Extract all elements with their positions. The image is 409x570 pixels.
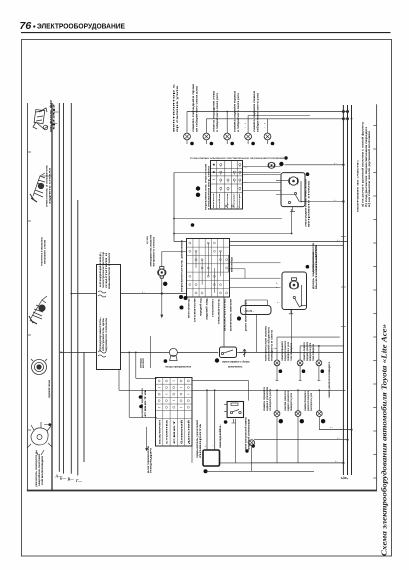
arrow wire (146, 427, 148, 448)
marker dot 3 (230, 142, 234, 146)
svg-text:тока поворота: тока поворота (290, 342, 293, 361)
svg-text:и омывателя ветр. стекла: и омывателя ветр. стекла (207, 165, 210, 210)
svg-text:стоянка: стоянка (167, 418, 169, 444)
svg-text:я габаритного света узла: я габаритного света узла (215, 92, 219, 132)
svg-text:аварийн.: аварийн. (219, 423, 222, 448)
svg-text:РУЧКА КЛАПАНУ АЛЬПИННУЮ ЧУВСТВ: РУЧКА КЛАПАНУ АЛЬПИННУЮ ЧУВСТВИТЕЛЬНУЮ О… (190, 157, 284, 160)
wire bus B (58, 103, 60, 472)
svg-text:фар: фар (52, 102, 56, 130)
light switch connector table (156, 378, 193, 447)
hazard warning relay K2 (227, 402, 243, 418)
wire table to mirror switch (223, 297, 225, 347)
svg-text:электродв.: электродв. (141, 358, 143, 368)
wire bus C (63, 103, 65, 474)
marker dot 4 (251, 142, 255, 146)
arrow symbol (243, 349, 246, 357)
svg-text:окончание на «части»: окончание на «части» (357, 159, 360, 212)
frame tick marks (28, 151, 32, 153)
wire from flasher (220, 462, 251, 464)
mirror heater switch box S2 (220, 347, 237, 358)
svg-text:звукового сигнала: звукового сигнала (105, 317, 108, 352)
svg-text:выкл: выкл (213, 192, 215, 208)
svg-text:Г—: Г— (75, 479, 82, 483)
bus branch ticks (52, 111, 59, 113)
right bus wire 1 (342, 105, 344, 475)
svg-text:лампа передняя лева: лампа передняя лева (213, 90, 216, 132)
fuse element bottom (98, 351, 106, 357)
svg-text:ближний: ближний (180, 419, 183, 444)
bus connector ticks (341, 236, 346, 238)
svg-text:вентилятор: вентилятор (188, 298, 191, 318)
schematic inner frame bottom edge (27, 490, 377, 492)
lamp L1 вентилятор салона (184, 133, 191, 140)
wire M1 to right bus (285, 164, 344, 166)
lamp T1 (274, 360, 280, 366)
box exit wires (290, 207, 295, 212)
relay exit wire right to bus (305, 201, 343, 203)
svg-text:лампа передняя прав: лампа передняя прав (192, 83, 195, 132)
svg-text:выключатель зажигания: выключатель зажигания (230, 299, 233, 331)
feeder wires into light switch table (128, 352, 130, 417)
top bus wire lower (206, 118, 349, 120)
windshield washer pump motor M2 (158, 267, 166, 279)
rear wiper motor box U2 (282, 272, 307, 310)
svg-text:ветрового стекла: ветрового стекла (153, 236, 156, 266)
wire bus E (partial) (77, 200, 79, 475)
svg-text:быстро: быстро (238, 192, 241, 208)
park switch contacts (288, 181, 306, 204)
svg-text:отопителя: отопителя (194, 298, 197, 322)
svg-text:вентилятора: вентилятора (231, 256, 234, 272)
inline connector capsule (241, 306, 272, 315)
headlamp washer pictorial (33, 108, 48, 130)
svg-text:внутр. освещ.: внутр. освещ. (147, 236, 149, 244)
svg-text:В—: В— (67, 478, 75, 482)
svg-text:центральный переключатель: центральный переключатель (141, 388, 144, 417)
washer pump motor M1 (268, 162, 275, 168)
bus end connectors (342, 110, 344, 113)
bottom bus y=462.9 (251, 462, 344, 464)
svg-text:заднего стекла: заднего стекла (49, 167, 52, 204)
windshield wiper-washer pictorial (29, 296, 47, 324)
svg-text:лампа задняя права: лампа задняя права (234, 90, 237, 132)
fuse block box (97, 265, 121, 370)
svg-text:поворота узла: поворота узла (269, 388, 272, 411)
lamp B1 (274, 411, 280, 417)
wire bus F (partial) (83, 352, 85, 462)
svg-text:ветрового стекла: ветрового стекла (308, 180, 311, 227)
svg-text:гнездо прикуривателя: гнездо прикуривателя (165, 365, 192, 368)
capsule feeder wires (244, 300, 246, 306)
main switch connector table (187, 239, 230, 298)
feeder wires (206, 390, 208, 450)
svg-text:ая габаритного света узла: ая габаритного света узла (194, 85, 198, 132)
motor symbol (289, 278, 298, 289)
wire x=150.3 (149, 336, 151, 368)
lamp B2 (295, 411, 301, 417)
wire bus D (70, 103, 72, 474)
svg-text:омывателя стекол: омывателя стекол (108, 252, 111, 289)
wire net (174, 172, 281, 174)
svg-text:звуковой сигнал: звуковой сигнал (47, 380, 51, 398)
right bus wire 2 (347, 105, 349, 475)
header rule (21, 32, 391, 34)
fuse element top (98, 291, 106, 297)
lamp T3 (316, 360, 322, 366)
svg-text:щетки: щетки (227, 192, 229, 208)
svg-text:мойка: мойка (218, 192, 221, 208)
svg-text:зеркало наружное с обогрев.: зеркало наружное с обогрев. (222, 361, 250, 364)
svg-text:щ 16 у: щ 16 у (342, 478, 349, 480)
svg-text:я габаритного света узла: я габаритного света узла (236, 92, 240, 132)
lamp T2 (297, 360, 303, 366)
svg-text:поворота узла: поворота узла (290, 392, 293, 411)
svg-text:свет: свет (174, 416, 176, 444)
bottom bus y=471.3 (206, 470, 315, 472)
svg-text:лампа указателя поворота: лампа указателя поворота (328, 361, 331, 398)
lamp B3 (316, 411, 322, 417)
lamp L4 лампа задняя правая габаритного света (245, 133, 252, 140)
svg-text:задний ход: задний ход (205, 298, 209, 320)
schematic inner frame left edge (27, 103, 29, 491)
lamp L3 лампа передняя левая габаритного света (224, 133, 231, 140)
connector table (wiper switch) (211, 161, 243, 210)
svg-text:Б—: Б— (59, 477, 66, 481)
svg-text:интервал: интервал (233, 193, 235, 208)
wiper motor box U1 (281, 173, 305, 207)
marker dot 5 (271, 142, 275, 146)
lamp C drop wire to bus3 (319, 429, 351, 431)
wire y=439.7 to bus2 (254, 439, 348, 441)
svg-text:лампа задняя левая: лампа задняя левая (253, 90, 256, 132)
svg-text:выключен: выключен (159, 419, 161, 444)
svg-text:стеклоочист.: стеклоочист. (212, 298, 215, 317)
svg-text:ор салона узла: ор салона узла (176, 85, 179, 132)
marker dot 2 (210, 142, 214, 146)
svg-text:в) на панели возле рулевой кол: в) на панели возле рулевой колонки (368, 130, 371, 207)
svg-text:передний ход: передний ход (199, 298, 203, 316)
long bus y=352.4 (61, 351, 96, 353)
svg-text:выключатель: выключатель (315, 253, 318, 289)
svg-text:вентилятор с: вентилятор с (172, 82, 175, 132)
svg-text:76: 76 (20, 20, 32, 32)
svg-text:омыватель: омыватель (218, 298, 221, 324)
long bus y=390.3 (119, 389, 157, 391)
rear window wiper-washer pictorial (30, 173, 45, 202)
turn signal flasher K1 (203, 450, 220, 466)
svg-text:включатель: включатель (228, 365, 243, 368)
bus branch segment (248, 115, 310, 117)
marker dot 1 (190, 142, 194, 146)
svg-text:Схема электрооборудования авто: Схема электрооборудования автомобиля Toy… (381, 323, 389, 556)
svg-text:~ 15 25 ~: ~ 15 25 ~ (244, 310, 255, 313)
svg-text:прерыватель указателей: прерыватель указателей (196, 419, 199, 458)
indicator lamp (249, 440, 255, 446)
svg-text:поворота: поворота (200, 422, 202, 458)
motor symbol (289, 177, 299, 185)
svg-text:ЭЛЕКТРООБОРУДОВАНИЕ: ЭЛЕКТРООБОРУДОВАНИЕ (37, 24, 125, 31)
schematic inner frame right edge (376, 104, 378, 490)
svg-text:габаритного света узла: габаритного света узла (256, 92, 260, 132)
right bus wire 3 (351, 105, 353, 475)
lamp L5 лампа задняя левая габаритного света (264, 133, 271, 140)
M2 wires (161, 252, 163, 267)
svg-text:повторитель узла: повторитель узла (310, 392, 313, 411)
long bus y=241.5 (230, 241, 347, 243)
svg-text:поворота и света: поворота и света (271, 329, 274, 361)
svg-text:передач: передач (151, 446, 153, 473)
svg-text:реле контрольной лампы: реле контрольной лампы (245, 417, 248, 450)
cigarette lighter socket (169, 348, 177, 356)
long bus y=293.5 (71, 293, 96, 295)
svg-text:ветрового стекла: ветрового стекла (44, 239, 47, 264)
top bus wire upper (187, 111, 349, 113)
wire bus A (left) (51, 103, 53, 491)
switch contacts (293, 285, 306, 307)
ignition distributor pictorial (27, 422, 52, 455)
svg-text:вентилят.: вентилят. (143, 358, 145, 368)
horn pictorial (31, 359, 47, 375)
lamp L2 лампа передняя правая габаритного света (203, 133, 210, 140)
svg-text:света: света (145, 387, 147, 417)
svg-text:дальний: дальний (188, 419, 191, 444)
svg-text:переключатель режимов: переключатель режимов (182, 239, 184, 292)
table cell symbols (213, 164, 215, 166)
svg-text:сигнализация: сигнализация (41, 455, 44, 485)
svg-text:тока поворота: тока поворота (312, 343, 315, 361)
